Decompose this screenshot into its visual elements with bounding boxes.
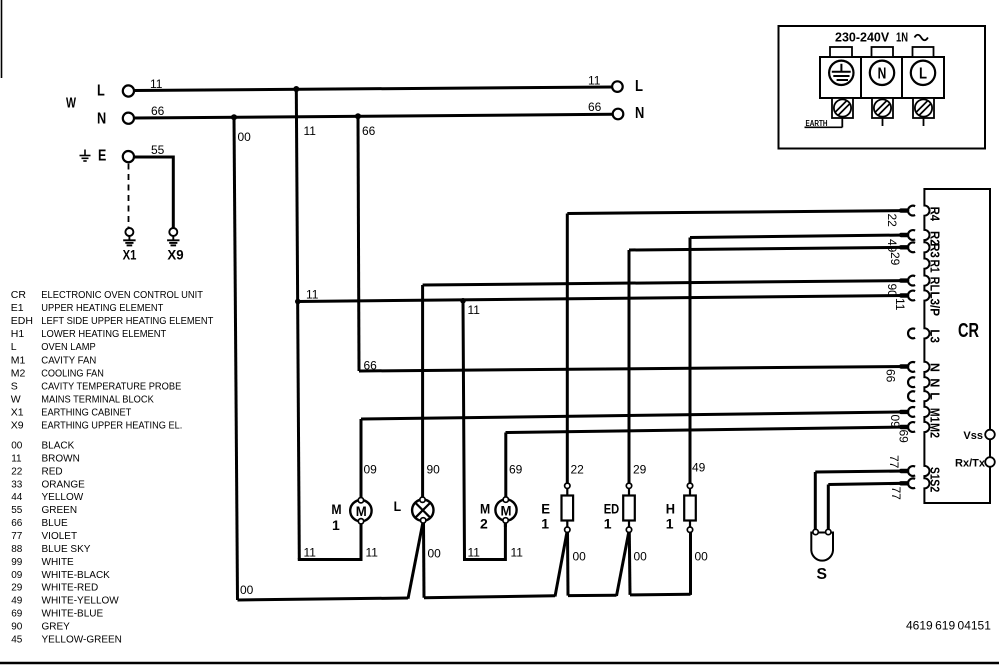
svg-text:M1: M1 — [928, 408, 942, 423]
svg-text:R4: R4 — [928, 207, 942, 222]
svg-text:L: L — [97, 82, 105, 99]
svg-text:66: 66 — [364, 359, 378, 373]
svg-text:22: 22 — [11, 466, 23, 477]
svg-text:X9: X9 — [167, 247, 183, 263]
svg-text:09: 09 — [364, 463, 378, 477]
svg-text:00: 00 — [695, 550, 709, 564]
svg-text:66: 66 — [151, 104, 165, 118]
svg-text:1: 1 — [541, 516, 549, 532]
svg-text:N: N — [97, 110, 106, 127]
svg-text:55: 55 — [11, 505, 23, 516]
svg-text:45: 45 — [11, 634, 23, 645]
svg-text:X1: X1 — [123, 247, 137, 263]
svg-text:90: 90 — [427, 463, 441, 477]
svg-text:BROWN: BROWN — [42, 453, 80, 464]
svg-text:N: N — [928, 363, 942, 372]
svg-text:11: 11 — [511, 546, 524, 560]
svg-text:55: 55 — [151, 143, 165, 157]
svg-text:LEFT SIDE UPPER HEATING ELEMEN: LEFT SIDE UPPER HEATING ELEMENT — [41, 315, 214, 327]
svg-text:00: 00 — [634, 550, 648, 564]
svg-text:49: 49 — [11, 596, 23, 607]
svg-text:00: 00 — [11, 441, 23, 452]
svg-text:LOWER HEATING ELEMENT: LOWER HEATING ELEMENT — [41, 328, 167, 340]
svg-text:Vss: Vss — [963, 430, 983, 442]
svg-text:M: M — [356, 503, 367, 519]
svg-text:L: L — [11, 341, 17, 353]
svg-text:L3: L3 — [928, 329, 942, 343]
svg-text:66: 66 — [362, 124, 376, 138]
svg-text:CAVITY FAN: CAVITY FAN — [41, 354, 96, 366]
svg-text:11: 11 — [150, 77, 163, 91]
svg-text:00: 00 — [240, 583, 254, 597]
svg-text:L3/P: L3/P — [928, 292, 942, 317]
svg-text:YELLOW: YELLOW — [42, 492, 84, 503]
svg-text:E1: E1 — [11, 302, 24, 314]
svg-text:W: W — [66, 95, 77, 112]
svg-text:L: L — [928, 392, 942, 400]
svg-text:VIOLET: VIOLET — [42, 531, 78, 542]
svg-text:W: W — [11, 393, 21, 405]
svg-text:N: N — [635, 105, 644, 122]
svg-text:4619 619 04151: 4619 619 04151 — [906, 619, 991, 633]
svg-text:230-240V: 230-240V — [835, 31, 890, 45]
svg-text:66: 66 — [11, 518, 23, 529]
svg-text:X9: X9 — [11, 420, 24, 432]
svg-text:11: 11 — [468, 303, 481, 317]
svg-text:N: N — [878, 66, 887, 83]
svg-text:29: 29 — [11, 583, 23, 594]
svg-text:11: 11 — [11, 453, 22, 464]
svg-text:M: M — [480, 501, 490, 517]
svg-text:ELECTRONIC OVEN CONTROL UNIT: ELECTRONIC OVEN CONTROL UNIT — [41, 289, 203, 301]
svg-text:69: 69 — [11, 609, 23, 620]
svg-text:GREY: GREY — [42, 622, 71, 633]
svg-text:77: 77 — [11, 531, 23, 542]
svg-text:M2: M2 — [11, 367, 26, 379]
svg-text:WHITE-YELLOW: WHITE-YELLOW — [42, 596, 120, 607]
svg-text:ED: ED — [604, 501, 620, 517]
svg-text:H1: H1 — [11, 328, 25, 340]
svg-text:WHITE: WHITE — [42, 557, 75, 568]
svg-text:44: 44 — [11, 492, 23, 503]
svg-text:E: E — [541, 501, 550, 517]
svg-text:Rx/Tx: Rx/Tx — [955, 458, 986, 470]
svg-text:11: 11 — [468, 546, 481, 560]
svg-text:09: 09 — [11, 570, 23, 581]
svg-text:CR: CR — [11, 289, 27, 301]
svg-text:2: 2 — [480, 516, 488, 532]
svg-text:BLUE SKY: BLUE SKY — [42, 544, 91, 555]
svg-text:77: 77 — [887, 455, 901, 469]
svg-text:1: 1 — [666, 516, 674, 532]
svg-text:90: 90 — [11, 622, 23, 633]
svg-text:11: 11 — [306, 288, 319, 302]
svg-text:11: 11 — [304, 546, 317, 560]
svg-text:00: 00 — [573, 550, 587, 564]
svg-text:49: 49 — [885, 239, 899, 253]
svg-text:49: 49 — [692, 461, 706, 475]
svg-text:MAINS TERMINAL BLOCK: MAINS TERMINAL BLOCK — [41, 393, 154, 405]
svg-text:OVEN LAMP: OVEN LAMP — [41, 341, 95, 353]
svg-text:COOLING FAN: COOLING FAN — [41, 367, 104, 379]
svg-text:09: 09 — [888, 415, 902, 429]
svg-text:69: 69 — [509, 463, 523, 477]
svg-text:WHITE-BLACK: WHITE-BLACK — [42, 570, 111, 581]
svg-text:1N: 1N — [896, 31, 908, 45]
svg-text:L: L — [394, 498, 402, 514]
svg-text:77: 77 — [889, 487, 903, 501]
svg-text:S: S — [11, 380, 18, 392]
svg-text:EDH: EDH — [11, 315, 33, 327]
svg-text:22: 22 — [571, 463, 585, 477]
svg-text:1: 1 — [604, 516, 612, 532]
svg-text:E: E — [98, 147, 107, 164]
svg-text:S1: S1 — [928, 467, 942, 480]
svg-text:00: 00 — [428, 547, 442, 561]
svg-text:R3: R3 — [928, 243, 942, 258]
svg-text:CR: CR — [958, 320, 979, 342]
svg-text:M: M — [501, 503, 512, 519]
svg-text:ORANGE: ORANGE — [42, 479, 86, 490]
svg-text:R1: R1 — [928, 260, 942, 273]
svg-text:69: 69 — [897, 430, 911, 444]
svg-text:99: 99 — [11, 557, 23, 568]
svg-text:66: 66 — [884, 369, 898, 383]
svg-text:YELLOW-GREEN: YELLOW-GREEN — [42, 634, 122, 645]
svg-text:BLACK: BLACK — [42, 441, 75, 452]
svg-text:11: 11 — [304, 124, 317, 138]
svg-text:M: M — [331, 501, 341, 517]
svg-text:EARTHING UPPER HEATING EL.: EARTHING UPPER HEATING EL. — [41, 420, 182, 432]
svg-text:UPPER HEATING ELEMENT: UPPER HEATING ELEMENT — [41, 302, 164, 314]
svg-text:RED: RED — [42, 466, 63, 477]
svg-text:11: 11 — [366, 546, 379, 560]
svg-text:1: 1 — [332, 517, 340, 533]
svg-text:90: 90 — [885, 284, 899, 298]
svg-text:CAVITY TEMPERATURE PROBE: CAVITY TEMPERATURE PROBE — [41, 380, 181, 392]
svg-text:22: 22 — [885, 214, 899, 228]
svg-text:29: 29 — [633, 463, 647, 477]
svg-text:29: 29 — [888, 252, 902, 266]
svg-text:WHITE-BLUE: WHITE-BLUE — [42, 609, 104, 620]
svg-text:S: S — [817, 566, 828, 583]
svg-text:S2: S2 — [928, 479, 942, 492]
svg-text:11: 11 — [893, 298, 907, 311]
svg-text:00: 00 — [238, 130, 252, 144]
svg-text:WHITE-RED: WHITE-RED — [42, 583, 99, 594]
svg-text:M2: M2 — [928, 423, 942, 438]
svg-text:GREEN: GREEN — [42, 505, 78, 516]
svg-text:88: 88 — [11, 544, 23, 555]
svg-text:EARTHING CABINET: EARTHING CABINET — [41, 406, 132, 418]
svg-text:L: L — [919, 65, 927, 82]
svg-text:N: N — [928, 378, 942, 387]
svg-text:H: H — [666, 501, 675, 517]
svg-text:X1: X1 — [11, 406, 24, 418]
svg-text:M1: M1 — [11, 354, 26, 366]
svg-text:11: 11 — [588, 74, 601, 88]
svg-text:L: L — [635, 78, 643, 95]
svg-text:RL: RL — [928, 277, 942, 292]
svg-text:BLUE: BLUE — [42, 518, 68, 529]
svg-text:66: 66 — [588, 100, 602, 114]
svg-text:33: 33 — [11, 479, 23, 490]
